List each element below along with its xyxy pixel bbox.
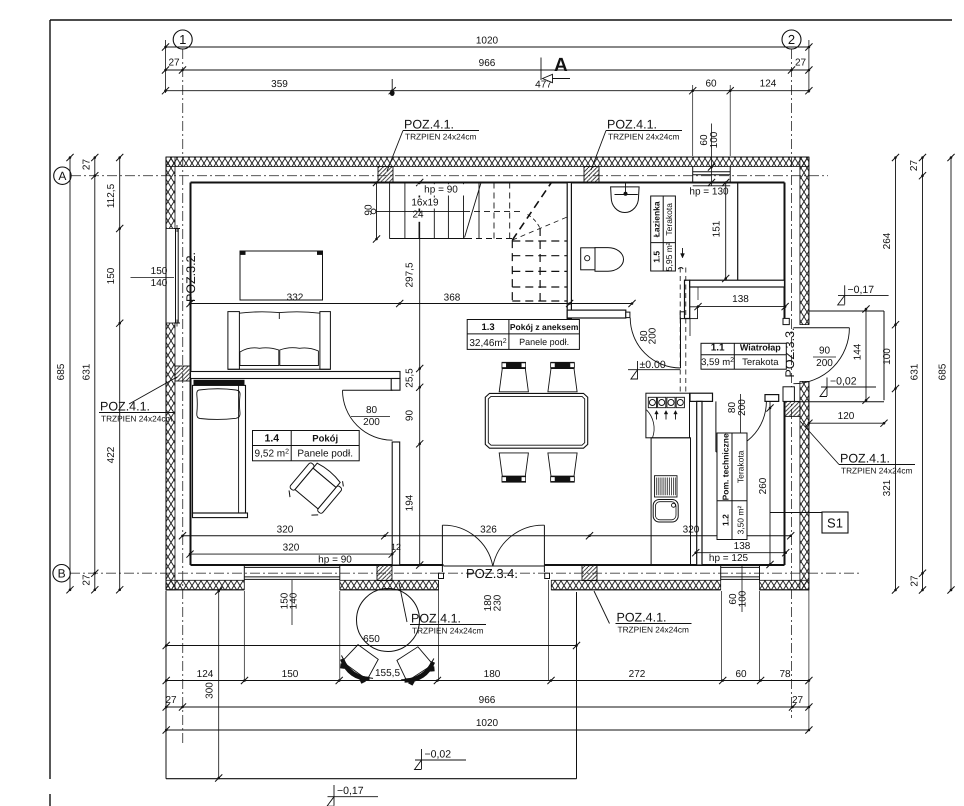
- svg-text:POZ.3.2.: POZ.3.2.: [184, 252, 198, 302]
- svg-text:200: 200: [363, 417, 380, 428]
- svg-text:124: 124: [197, 669, 214, 680]
- svg-text:12: 12: [391, 542, 401, 552]
- svg-text:685: 685: [56, 363, 67, 380]
- svg-text:B: B: [58, 567, 66, 581]
- svg-text:180: 180: [484, 669, 501, 680]
- svg-text:631: 631: [82, 363, 93, 380]
- svg-text:27: 27: [165, 695, 177, 706]
- svg-text:150: 150: [106, 267, 117, 284]
- svg-text:27: 27: [792, 695, 804, 706]
- svg-text:966: 966: [479, 695, 496, 706]
- svg-text:−0,02: −0,02: [425, 749, 452, 761]
- svg-text:27: 27: [82, 159, 93, 171]
- svg-text:300: 300: [205, 682, 216, 699]
- svg-text:S1: S1: [827, 516, 843, 531]
- svg-text:138: 138: [734, 541, 751, 552]
- svg-text:1.5: 1.5: [652, 251, 662, 263]
- svg-text:321: 321: [882, 479, 893, 496]
- svg-text:POZ.4.1.: POZ.4.1.: [100, 400, 150, 414]
- svg-text:155,5: 155,5: [375, 668, 400, 679]
- svg-text:27: 27: [795, 58, 807, 69]
- svg-text:332: 332: [287, 293, 304, 304]
- svg-text:±0.00: ±0.00: [640, 359, 666, 371]
- svg-text:144: 144: [853, 343, 864, 360]
- svg-text:272: 272: [629, 669, 646, 680]
- svg-text:1.3: 1.3: [481, 322, 494, 333]
- svg-text:80: 80: [366, 405, 378, 416]
- svg-text:3,59 m2: 3,59 m2: [701, 357, 734, 368]
- svg-text:1: 1: [179, 32, 186, 47]
- svg-text:POZ.4.1.: POZ.4.1.: [617, 611, 667, 625]
- svg-text:Łazienka: Łazienka: [652, 201, 662, 237]
- svg-text:POZ.4.1.: POZ.4.1.: [411, 612, 461, 626]
- svg-text:124: 124: [760, 79, 777, 90]
- svg-text:POZ.4.1.: POZ.4.1.: [840, 452, 890, 466]
- svg-text:2: 2: [788, 32, 795, 47]
- svg-text:140: 140: [151, 278, 168, 289]
- svg-text:Wiatrołap: Wiatrołap: [740, 343, 781, 353]
- svg-text:25,5: 25,5: [404, 368, 415, 388]
- svg-text:TRZPIEN 24x24cm: TRZPIEN 24x24cm: [405, 132, 477, 142]
- svg-text:100: 100: [738, 590, 749, 607]
- svg-text:1020: 1020: [476, 36, 499, 47]
- svg-text:326: 326: [480, 525, 497, 536]
- svg-text:Pokój: Pokój: [312, 434, 338, 445]
- svg-text:320: 320: [683, 525, 700, 536]
- svg-text:POZ.4.1.: POZ.4.1.: [607, 118, 657, 132]
- svg-text:24: 24: [412, 210, 424, 221]
- svg-text:194: 194: [404, 494, 415, 511]
- svg-text:90: 90: [819, 346, 831, 357]
- svg-text:Panele podł.: Panele podł.: [297, 449, 353, 460]
- svg-text:Terakota: Terakota: [742, 357, 779, 368]
- svg-text:TRZPIEN 24x24cm: TRZPIEN 24x24cm: [841, 466, 913, 476]
- svg-text:TRZPIEN 24x24cm: TRZPIEN 24x24cm: [101, 414, 173, 424]
- svg-text:1.4: 1.4: [265, 433, 280, 445]
- svg-text:150: 150: [151, 266, 168, 277]
- svg-text:320: 320: [283, 543, 300, 554]
- svg-text:27: 27: [909, 160, 920, 172]
- svg-text:TRZPIEN 24x24cm: TRZPIEN 24x24cm: [618, 625, 690, 635]
- svg-text:140: 140: [289, 592, 300, 609]
- svg-text:hp = 130: hp = 130: [689, 187, 729, 198]
- svg-text:100: 100: [709, 131, 720, 148]
- svg-text:−0,17: −0,17: [848, 284, 875, 296]
- svg-text:200: 200: [816, 358, 833, 369]
- svg-text:60: 60: [735, 669, 747, 680]
- svg-text:1020: 1020: [476, 718, 499, 729]
- svg-text:264: 264: [882, 232, 893, 249]
- svg-text:Panele podł.: Panele podł.: [519, 337, 569, 347]
- svg-text:5,95 m²: 5,95 m²: [664, 242, 674, 271]
- svg-text:9,52 m2: 9,52 m2: [255, 448, 290, 459]
- svg-text:hp = 125: hp = 125: [709, 553, 749, 564]
- svg-text:POZ.3.4.: POZ.3.4.: [466, 566, 518, 581]
- svg-text:78: 78: [779, 669, 791, 680]
- svg-text:−0,02: −0,02: [830, 376, 857, 388]
- svg-text:16x19: 16x19: [411, 198, 439, 209]
- svg-text:POZ.4.1.: POZ.4.1.: [404, 118, 454, 132]
- svg-text:Pom. techniczne: Pom. techniczne: [721, 433, 731, 500]
- svg-text:A: A: [58, 169, 66, 183]
- svg-text:Terakota: Terakota: [664, 203, 674, 236]
- svg-text:650: 650: [363, 634, 380, 645]
- svg-text:359: 359: [271, 79, 288, 90]
- svg-text:1.1: 1.1: [711, 343, 725, 354]
- svg-text:320: 320: [277, 525, 294, 536]
- svg-text:90: 90: [364, 204, 375, 216]
- svg-text:685: 685: [938, 363, 949, 380]
- svg-text:200: 200: [737, 399, 748, 416]
- svg-text:Terakota: Terakota: [736, 450, 746, 483]
- svg-text:631: 631: [910, 363, 921, 380]
- svg-text:150: 150: [282, 669, 299, 680]
- svg-text:120: 120: [838, 411, 855, 422]
- svg-text:112,5: 112,5: [106, 183, 117, 208]
- svg-text:Pokój z aneksem: Pokój z aneksem: [510, 322, 579, 332]
- svg-text:200: 200: [648, 327, 659, 344]
- svg-text:260: 260: [758, 477, 769, 494]
- svg-text:27: 27: [910, 575, 921, 587]
- svg-text:TRZPIEN 24x24cm: TRZPIEN 24x24cm: [608, 132, 680, 142]
- svg-text:100: 100: [882, 348, 893, 365]
- svg-text:27: 27: [168, 58, 180, 69]
- svg-text:90: 90: [404, 410, 415, 422]
- svg-text:27: 27: [82, 574, 93, 586]
- svg-text:966: 966: [479, 58, 496, 69]
- svg-text:1.2: 1.2: [721, 514, 731, 526]
- svg-text:TRZPIEN 24x24cm: TRZPIEN 24x24cm: [412, 626, 484, 636]
- svg-text:297,5: 297,5: [404, 262, 415, 287]
- svg-text:60: 60: [705, 79, 717, 90]
- svg-text:hp = 90: hp = 90: [318, 555, 352, 566]
- svg-text:422: 422: [106, 446, 117, 463]
- svg-text:32,46m2: 32,46m2: [469, 338, 506, 349]
- svg-text:3,50 m²: 3,50 m²: [736, 506, 746, 535]
- svg-text:138: 138: [732, 294, 749, 305]
- svg-text:151: 151: [712, 220, 723, 237]
- svg-text:A: A: [554, 55, 568, 76]
- svg-text:230: 230: [493, 594, 504, 611]
- svg-text:hp = 90: hp = 90: [424, 185, 458, 196]
- svg-text:−0,17: −0,17: [337, 785, 364, 797]
- svg-text:368: 368: [444, 293, 461, 304]
